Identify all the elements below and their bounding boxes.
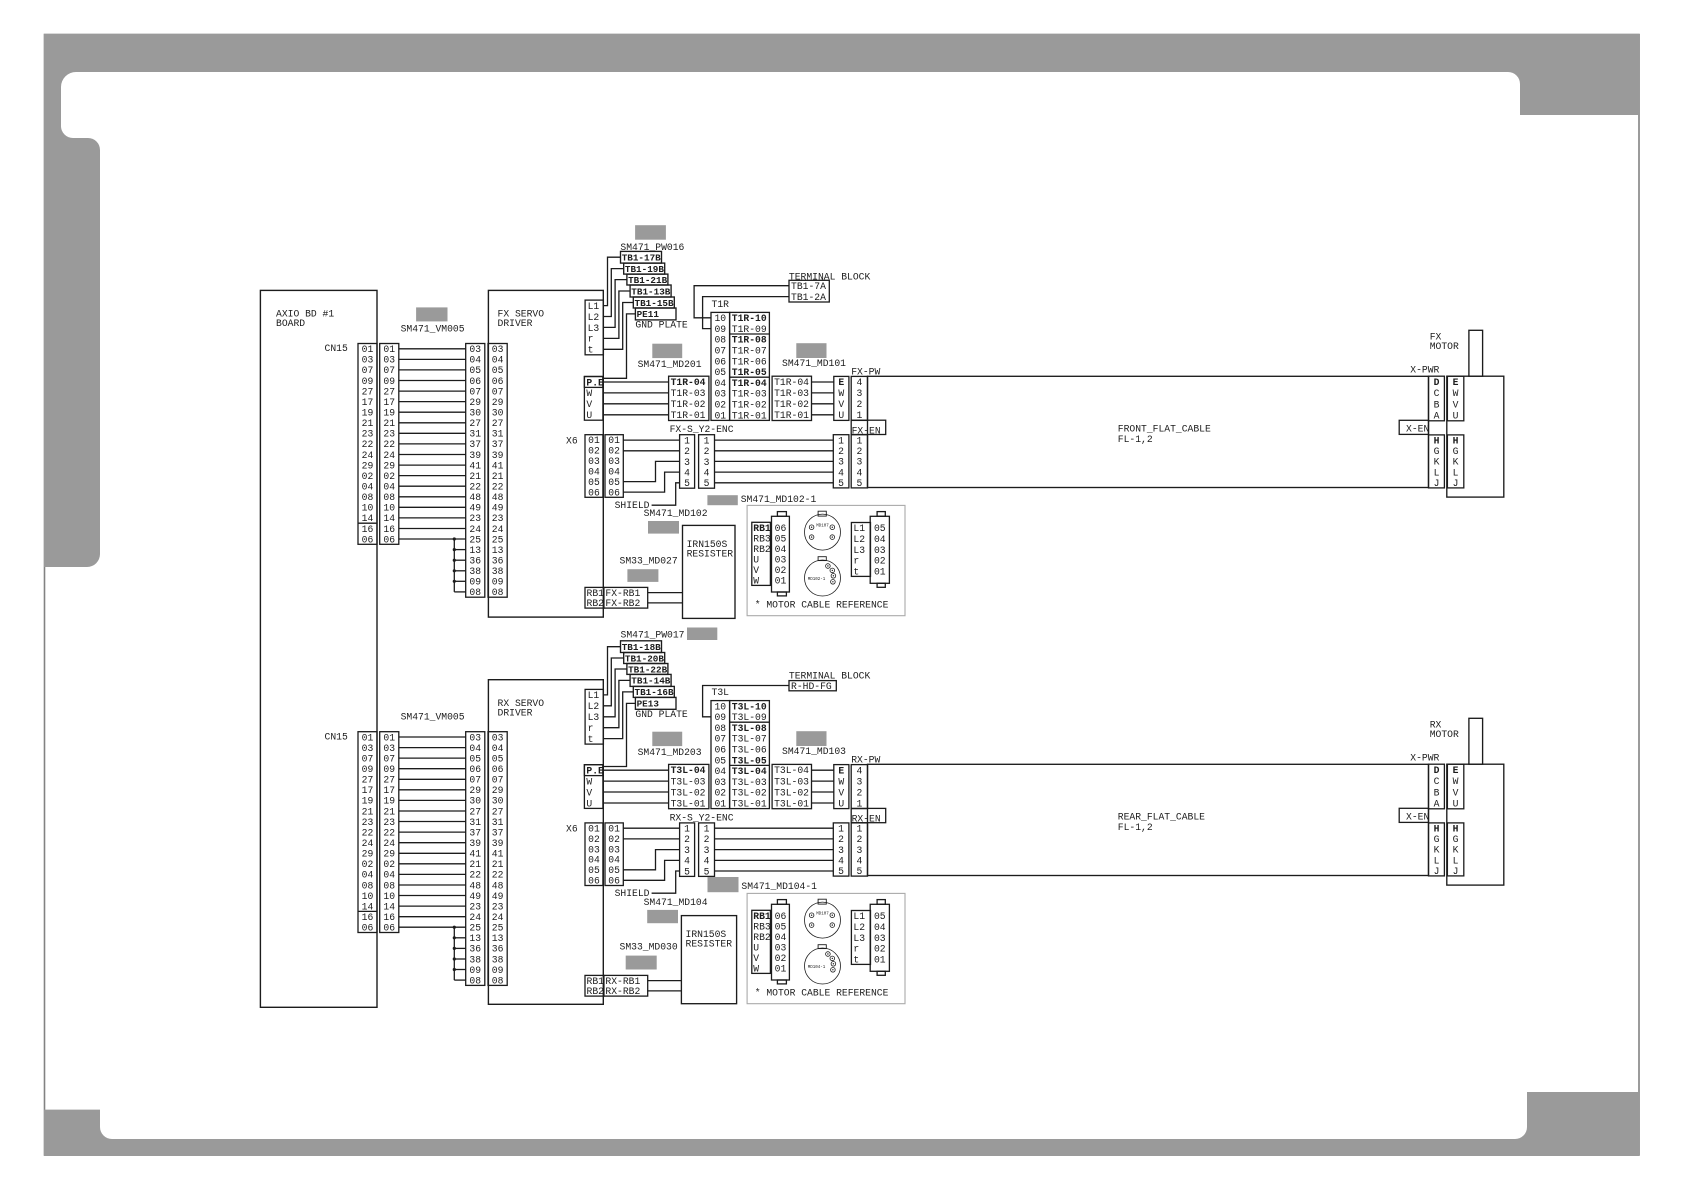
svg-text:24: 24 bbox=[362, 838, 374, 849]
svg-text:T1R-03: T1R-03 bbox=[732, 389, 767, 400]
svg-text:24: 24 bbox=[469, 524, 481, 535]
svg-text:4: 4 bbox=[856, 377, 862, 388]
terminal block stack TB1-18B..PE13 (RX) bbox=[621, 641, 662, 653]
svg-text:04: 04 bbox=[588, 467, 600, 478]
X6 pin column inner (RX) bbox=[585, 823, 603, 886]
pin column H G K L J cable (FX) bbox=[1429, 435, 1445, 488]
svg-text:1: 1 bbox=[838, 435, 844, 446]
svg-text:07: 07 bbox=[714, 346, 726, 357]
svg-text:17: 17 bbox=[383, 785, 395, 796]
svg-text:L2: L2 bbox=[853, 534, 865, 545]
svg-text:31: 31 bbox=[469, 817, 481, 828]
svg-text:05: 05 bbox=[492, 365, 504, 376]
pin column D C B A (RX) bbox=[1429, 764, 1445, 809]
label X-EN tab (RX) bbox=[1399, 808, 1428, 822]
svg-text:23: 23 bbox=[362, 429, 374, 440]
svg-text:03: 03 bbox=[608, 844, 620, 855]
svg-text:29: 29 bbox=[469, 785, 481, 796]
svg-text:01: 01 bbox=[588, 823, 600, 834]
svg-text:27: 27 bbox=[383, 386, 395, 397]
box IRN150S RESISTER (RX) bbox=[681, 916, 736, 1004]
svg-text:48: 48 bbox=[492, 880, 504, 891]
svg-text:23: 23 bbox=[469, 901, 481, 912]
pin column E W V U motor (FX) bbox=[1447, 376, 1463, 421]
svg-text:RB2: RB2 bbox=[753, 932, 771, 943]
svg-text:W: W bbox=[838, 776, 844, 787]
svg-text:16: 16 bbox=[383, 912, 395, 923]
svg-text:36: 36 bbox=[492, 556, 504, 567]
svg-text:04: 04 bbox=[588, 855, 600, 866]
svg-text:06: 06 bbox=[492, 376, 504, 387]
svg-text:SM33_MD027: SM33_MD027 bbox=[620, 555, 678, 566]
cable label SM471_MD104-1 (RX) bbox=[708, 877, 739, 892]
terminal name box T1R-04..01 right (FX) bbox=[772, 376, 811, 420]
svg-text:t: t bbox=[588, 345, 594, 356]
svg-text:SM33_MD030: SM33_MD030 bbox=[620, 942, 678, 953]
T3L pin number column (RX) bbox=[711, 701, 730, 809]
svg-text:02: 02 bbox=[874, 944, 886, 955]
svg-text:T3L-02: T3L-02 bbox=[732, 788, 767, 799]
svg-text:4: 4 bbox=[838, 856, 844, 867]
svg-text:04: 04 bbox=[714, 766, 726, 777]
svg-text:04: 04 bbox=[492, 355, 504, 366]
svg-text:38: 38 bbox=[469, 566, 481, 577]
svg-text:SM471_MD203: SM471_MD203 bbox=[638, 747, 702, 758]
svg-text:E: E bbox=[838, 377, 844, 388]
svg-text:4: 4 bbox=[684, 856, 690, 867]
svg-text:L1: L1 bbox=[588, 690, 600, 701]
svg-text:TERMINAL BLOCK: TERMINAL BLOCK bbox=[789, 670, 871, 681]
svg-text:06: 06 bbox=[588, 876, 600, 887]
svg-text:04: 04 bbox=[775, 932, 787, 943]
svg-text:10: 10 bbox=[714, 701, 726, 712]
svg-text:2: 2 bbox=[838, 834, 844, 845]
svg-text:3: 3 bbox=[856, 776, 862, 787]
svg-text:05: 05 bbox=[588, 477, 600, 488]
svg-text:T3L-03: T3L-03 bbox=[774, 776, 809, 787]
svg-text:41: 41 bbox=[492, 849, 504, 860]
label RX-EN tab (RX) bbox=[851, 808, 886, 822]
svg-text:08: 08 bbox=[492, 975, 504, 986]
terminal name box T3L-04..01 left (RX) bbox=[669, 764, 709, 808]
svg-text:05: 05 bbox=[469, 753, 481, 764]
wires CN15 to servo driver (FX) bbox=[399, 348, 466, 350]
svg-text:B: B bbox=[1434, 787, 1440, 798]
svg-text:17: 17 bbox=[362, 785, 374, 796]
reference connector L1..t (RX) bbox=[851, 911, 870, 965]
svg-text:08: 08 bbox=[362, 492, 374, 503]
svg-text:05: 05 bbox=[608, 865, 620, 876]
svg-text:31: 31 bbox=[492, 429, 504, 440]
svg-text:03: 03 bbox=[469, 344, 481, 355]
reference connector RB1..W (RX) bbox=[752, 910, 771, 973]
svg-text:MD107: MD107 bbox=[816, 524, 829, 528]
svg-text:MD107: MD107 bbox=[816, 912, 829, 916]
svg-text:RX-RB2: RX-RB2 bbox=[605, 986, 640, 997]
svg-text:06: 06 bbox=[608, 487, 620, 498]
svg-text:U: U bbox=[586, 410, 592, 421]
svg-text:T3L-04: T3L-04 bbox=[671, 765, 706, 776]
svg-text:02: 02 bbox=[874, 556, 886, 567]
svg-text:SM471_MD101: SM471_MD101 bbox=[782, 358, 846, 369]
svg-text:29: 29 bbox=[383, 460, 395, 471]
svg-text:R-HD-FG: R-HD-FG bbox=[791, 681, 832, 692]
svg-text:03: 03 bbox=[714, 777, 726, 788]
svg-text:01: 01 bbox=[608, 435, 620, 446]
svg-text:RX-EN: RX-EN bbox=[852, 814, 881, 825]
svg-text:SM471_MD103: SM471_MD103 bbox=[782, 746, 846, 757]
svg-text:5: 5 bbox=[684, 478, 690, 489]
svg-text:06: 06 bbox=[608, 876, 620, 887]
svg-text:2: 2 bbox=[704, 446, 710, 457]
svg-text:X-PWR: X-PWR bbox=[1410, 753, 1439, 764]
pin column E W V U motor (RX) bbox=[1447, 764, 1463, 809]
svg-text:V: V bbox=[838, 399, 844, 410]
svg-text:03: 03 bbox=[362, 355, 374, 366]
svg-text:L: L bbox=[1453, 467, 1459, 478]
svg-text:02: 02 bbox=[714, 788, 726, 799]
svg-text:J: J bbox=[1434, 478, 1440, 489]
cable label SM471_MD101 (FX) bbox=[796, 343, 826, 358]
svg-text:G: G bbox=[1434, 834, 1440, 845]
svg-text:41: 41 bbox=[469, 849, 481, 860]
svg-text:27: 27 bbox=[469, 806, 481, 817]
CN15 pin column 1 (FX) bbox=[358, 344, 377, 545]
wire shield to encoder pin 5 (FX) bbox=[652, 483, 680, 505]
svg-text:1: 1 bbox=[856, 824, 862, 835]
svg-text:01: 01 bbox=[775, 964, 787, 975]
encoder pin column 1-5 left a (RX) bbox=[680, 823, 695, 877]
svg-text:06: 06 bbox=[714, 356, 726, 367]
svg-text:07: 07 bbox=[492, 386, 504, 397]
pin column 4 3 2 1 RX-PW (RX) bbox=[851, 765, 867, 809]
svg-text:02: 02 bbox=[383, 859, 395, 870]
svg-text:04: 04 bbox=[362, 482, 374, 493]
svg-text:T3L-09: T3L-09 bbox=[732, 712, 767, 723]
svg-text:5: 5 bbox=[838, 478, 844, 489]
svg-text:49: 49 bbox=[492, 891, 504, 902]
svg-text:FX-S_Y2-ENC: FX-S_Y2-ENC bbox=[670, 424, 734, 435]
svg-text:r: r bbox=[853, 556, 859, 567]
svg-text:RESISTER: RESISTER bbox=[686, 939, 733, 950]
svg-text:21: 21 bbox=[383, 418, 395, 429]
FX driver pin column outer (FX) bbox=[466, 344, 485, 598]
svg-text:08: 08 bbox=[714, 723, 726, 734]
svg-text:T1R-03: T1R-03 bbox=[671, 388, 706, 399]
svg-text:MOTOR: MOTOR bbox=[1430, 341, 1459, 352]
CN15 pin column 2 (FX) bbox=[380, 344, 399, 545]
svg-text:W: W bbox=[586, 388, 592, 399]
pin column 4 3 2 1 FX-PW (FX) bbox=[851, 376, 867, 420]
encoder pin column 1-5 left a (FX) bbox=[680, 435, 695, 489]
svg-text:05: 05 bbox=[775, 921, 787, 932]
svg-text:G: G bbox=[1434, 446, 1440, 457]
RX driver pin column inner (RX) bbox=[488, 732, 507, 986]
svg-text:4: 4 bbox=[856, 765, 862, 776]
wire P.E to PE11 (FX) bbox=[603, 314, 636, 378]
svg-text:04: 04 bbox=[775, 544, 787, 555]
svg-text:L1: L1 bbox=[588, 301, 600, 312]
svg-text:TB1-15B: TB1-15B bbox=[635, 298, 674, 309]
svg-text:L1: L1 bbox=[853, 523, 865, 534]
wires T1R-04..01 to E W V U (FX) bbox=[812, 381, 834, 383]
svg-text:10: 10 bbox=[362, 503, 374, 514]
svg-text:G: G bbox=[1453, 446, 1459, 457]
svg-text:09: 09 bbox=[362, 764, 374, 775]
svg-text:* MOTOR CABLE REFERENCE: * MOTOR CABLE REFERENCE bbox=[755, 988, 889, 999]
svg-text:23: 23 bbox=[383, 817, 395, 828]
svg-text:L3: L3 bbox=[853, 545, 865, 556]
svg-text:t: t bbox=[853, 954, 859, 965]
svg-text:36: 36 bbox=[469, 944, 481, 955]
svg-text:TB1-2A: TB1-2A bbox=[791, 292, 826, 303]
svg-text:04: 04 bbox=[608, 855, 620, 866]
RX driver pin column outer (RX) bbox=[466, 732, 485, 986]
svg-text:T1R-02: T1R-02 bbox=[671, 399, 706, 410]
svg-text:08: 08 bbox=[383, 880, 395, 891]
svg-text:37: 37 bbox=[469, 827, 481, 838]
terminal box L1 L2 L3 r t (RX) bbox=[585, 689, 603, 744]
svg-text:01: 01 bbox=[714, 799, 726, 810]
svg-text:T1R-04: T1R-04 bbox=[732, 378, 767, 389]
svg-text:09: 09 bbox=[492, 577, 504, 588]
svg-text:2: 2 bbox=[684, 834, 690, 845]
svg-text:39: 39 bbox=[469, 838, 481, 849]
svg-text:T1R-10: T1R-10 bbox=[732, 313, 767, 324]
svg-text:T3L-05: T3L-05 bbox=[732, 755, 767, 766]
svg-text:41: 41 bbox=[492, 460, 504, 471]
svg-text:V: V bbox=[753, 953, 759, 964]
svg-text:04: 04 bbox=[492, 743, 504, 754]
svg-text:06: 06 bbox=[362, 923, 374, 934]
T3L pin name column (RX) bbox=[730, 701, 770, 809]
svg-text:t: t bbox=[853, 566, 859, 577]
svg-text:GND PLATE: GND PLATE bbox=[635, 320, 688, 331]
svg-text:06: 06 bbox=[588, 487, 600, 498]
svg-text:1: 1 bbox=[838, 824, 844, 835]
cable label SM33_MD027 (FX) bbox=[627, 569, 658, 582]
svg-text:T1R-09: T1R-09 bbox=[732, 324, 767, 335]
svg-text:U: U bbox=[1453, 411, 1459, 422]
svg-text:RB1: RB1 bbox=[753, 523, 771, 534]
svg-text:08: 08 bbox=[714, 335, 726, 346]
cable label SM471_MD102-1 (FX) bbox=[707, 495, 737, 505]
svg-text:2: 2 bbox=[856, 446, 862, 457]
svg-text:22: 22 bbox=[362, 827, 374, 838]
encoder cable wires (FX) bbox=[715, 439, 834, 441]
svg-text:48: 48 bbox=[492, 492, 504, 503]
svg-text:E: E bbox=[1453, 765, 1459, 776]
svg-text:23: 23 bbox=[362, 817, 374, 828]
svg-text:X6: X6 bbox=[566, 435, 578, 446]
svg-text:V: V bbox=[586, 787, 592, 798]
box AXIO BD #1 BOARD bbox=[260, 290, 377, 1007]
svg-text:01: 01 bbox=[874, 566, 886, 577]
junction dots (FX) bbox=[453, 537, 456, 540]
svg-text:03: 03 bbox=[492, 344, 504, 355]
svg-text:04: 04 bbox=[874, 534, 886, 545]
svg-text:1: 1 bbox=[684, 824, 690, 835]
svg-text:24: 24 bbox=[383, 450, 395, 461]
svg-text:21: 21 bbox=[492, 471, 504, 482]
svg-text:SM471_MD102-1: SM471_MD102-1 bbox=[741, 494, 817, 505]
svg-text:T1R-05: T1R-05 bbox=[732, 367, 767, 378]
svg-text:H: H bbox=[1453, 824, 1459, 835]
svg-text:07: 07 bbox=[714, 734, 726, 745]
terminal box RB1 RB2 (RX) bbox=[585, 975, 604, 996]
svg-text:22: 22 bbox=[362, 439, 374, 450]
svg-text:REAR_FLAT_CABLE: REAR_FLAT_CABLE bbox=[1118, 812, 1205, 823]
svg-text:W: W bbox=[1453, 388, 1459, 399]
svg-text:03: 03 bbox=[469, 732, 481, 743]
wires X6 to encoder (RX) bbox=[623, 827, 679, 829]
svg-text:29: 29 bbox=[492, 397, 504, 408]
wire TB1-7A to T1R pin 10 bbox=[694, 286, 789, 318]
svg-text:5: 5 bbox=[684, 866, 690, 877]
svg-text:08: 08 bbox=[469, 975, 481, 986]
svg-text:13: 13 bbox=[469, 933, 481, 944]
encoder pin column 1-5 right a (FX) bbox=[833, 435, 849, 488]
svg-text:P.E: P.E bbox=[586, 766, 604, 777]
svg-text:39: 39 bbox=[492, 450, 504, 461]
svg-text:K: K bbox=[1453, 845, 1459, 856]
svg-text:3: 3 bbox=[704, 457, 710, 468]
svg-text:01: 01 bbox=[608, 823, 620, 834]
svg-text:48: 48 bbox=[469, 492, 481, 503]
svg-text:T3L-03: T3L-03 bbox=[671, 776, 706, 787]
svg-text:SM471_MD102: SM471_MD102 bbox=[644, 508, 708, 519]
svg-text:T1R-02: T1R-02 bbox=[732, 400, 767, 411]
reference motor plug circle 1 (RX) bbox=[805, 902, 841, 938]
svg-text:1: 1 bbox=[704, 435, 710, 446]
svg-text:29: 29 bbox=[362, 460, 374, 471]
svg-text:T3L-01: T3L-01 bbox=[671, 798, 706, 809]
svg-text:36: 36 bbox=[492, 944, 504, 955]
FX driver pin column inner (FX) bbox=[488, 344, 507, 598]
svg-text:03: 03 bbox=[362, 743, 374, 754]
svg-text:49: 49 bbox=[492, 503, 504, 514]
svg-text:W: W bbox=[1453, 776, 1459, 787]
svg-text:RB2: RB2 bbox=[587, 986, 605, 997]
svg-text:FX-EN: FX-EN bbox=[852, 425, 881, 436]
svg-text:T3L: T3L bbox=[712, 687, 730, 698]
svg-text:X6: X6 bbox=[566, 824, 578, 835]
svg-text:T1R-07: T1R-07 bbox=[732, 346, 767, 357]
svg-text:MOTOR: MOTOR bbox=[1430, 729, 1459, 740]
svg-text:05: 05 bbox=[714, 755, 726, 766]
svg-text:19: 19 bbox=[383, 796, 395, 807]
svg-text:03: 03 bbox=[383, 743, 395, 754]
svg-text:H: H bbox=[1434, 436, 1440, 447]
wires P.E W V U to T3L-04..01 (RX) bbox=[603, 769, 669, 771]
svg-text:W: W bbox=[753, 576, 759, 587]
svg-text:RB3: RB3 bbox=[753, 921, 771, 932]
svg-text:3: 3 bbox=[856, 388, 862, 399]
box RX SERVO DRIVER bbox=[488, 680, 603, 1005]
svg-text:10: 10 bbox=[362, 891, 374, 902]
svg-text:T3L-08: T3L-08 bbox=[732, 723, 767, 734]
svg-text:23: 23 bbox=[469, 513, 481, 524]
svg-text:H: H bbox=[1434, 824, 1440, 835]
svg-text:02: 02 bbox=[714, 400, 726, 411]
corner decoration bottom-left bbox=[44, 1110, 1639, 1156]
cable label SM33_MD030 (RX) bbox=[626, 956, 657, 970]
svg-text:SM471_VM005: SM471_VM005 bbox=[401, 323, 465, 334]
terminal box RB1 RB2 (FX) bbox=[585, 587, 604, 608]
svg-text:30: 30 bbox=[492, 408, 504, 419]
svg-text:5: 5 bbox=[704, 478, 710, 489]
cable label SM471_PW017 (RX) bbox=[687, 628, 717, 641]
svg-text:TB1-14B: TB1-14B bbox=[631, 676, 670, 687]
svg-text:L3: L3 bbox=[853, 933, 865, 944]
svg-text:24: 24 bbox=[492, 912, 504, 923]
svg-text:r: r bbox=[853, 944, 859, 955]
svg-text:37: 37 bbox=[492, 439, 504, 450]
svg-text:04: 04 bbox=[469, 743, 481, 754]
svg-text:SM471_MD201: SM471_MD201 bbox=[638, 359, 702, 370]
wire R-HD-FG to T3L pin 09 bbox=[703, 686, 789, 717]
box MOTOR CABLE REFERENCE (RX) bbox=[747, 893, 905, 1003]
svg-text:06: 06 bbox=[775, 911, 787, 922]
svg-text:09: 09 bbox=[714, 324, 726, 335]
svg-text:2: 2 bbox=[856, 787, 862, 798]
svg-text:SM471_MD104-1: SM471_MD104-1 bbox=[741, 881, 817, 892]
svg-text:T1R-04: T1R-04 bbox=[671, 377, 706, 388]
svg-text:K: K bbox=[1434, 457, 1440, 468]
svg-text:RB2: RB2 bbox=[587, 598, 605, 609]
svg-text:04: 04 bbox=[383, 870, 395, 881]
svg-text:T3L-06: T3L-06 bbox=[732, 745, 767, 756]
svg-text:L: L bbox=[1434, 467, 1440, 478]
svg-text:A: A bbox=[1434, 411, 1440, 422]
svg-text:24: 24 bbox=[492, 524, 504, 535]
svg-text:T3L-03: T3L-03 bbox=[732, 777, 767, 788]
svg-text:01: 01 bbox=[362, 344, 374, 355]
svg-text:03: 03 bbox=[714, 389, 726, 400]
svg-text:4: 4 bbox=[856, 467, 862, 478]
svg-text:J: J bbox=[1434, 866, 1440, 877]
svg-text:D: D bbox=[1434, 377, 1440, 388]
pin column H G K L J motor (RX) bbox=[1447, 823, 1463, 876]
svg-text:08: 08 bbox=[469, 587, 481, 598]
terminal block stack TB1-17B..PE11 (FX) bbox=[621, 251, 662, 263]
svg-text:2: 2 bbox=[856, 834, 862, 845]
svg-text:V: V bbox=[1453, 399, 1459, 410]
terminal name box T3L-04..01 right (RX) bbox=[772, 764, 811, 808]
svg-text:U: U bbox=[753, 554, 759, 565]
svg-text:4: 4 bbox=[684, 467, 690, 478]
svg-text:02: 02 bbox=[362, 471, 374, 482]
svg-text:01: 01 bbox=[383, 344, 395, 355]
T1R pin number column (FX) bbox=[711, 312, 730, 420]
encoder pin column 1-5 right b (FX) bbox=[851, 435, 867, 488]
svg-text:13: 13 bbox=[492, 933, 504, 944]
svg-text:H: H bbox=[1453, 436, 1459, 447]
svg-text:09: 09 bbox=[383, 376, 395, 387]
svg-text:1: 1 bbox=[704, 824, 710, 835]
svg-text:27: 27 bbox=[492, 806, 504, 817]
svg-text:22: 22 bbox=[383, 439, 395, 450]
svg-text:CN15: CN15 bbox=[325, 731, 348, 742]
svg-text:03: 03 bbox=[775, 554, 787, 565]
svg-text:37: 37 bbox=[469, 439, 481, 450]
svg-text:48: 48 bbox=[469, 880, 481, 891]
svg-text:25: 25 bbox=[492, 923, 504, 934]
svg-text:06: 06 bbox=[775, 523, 787, 534]
cable label SM471_MD203 (RX) bbox=[652, 732, 682, 746]
svg-text:05: 05 bbox=[775, 533, 787, 544]
svg-text:T3L-04: T3L-04 bbox=[774, 765, 809, 776]
